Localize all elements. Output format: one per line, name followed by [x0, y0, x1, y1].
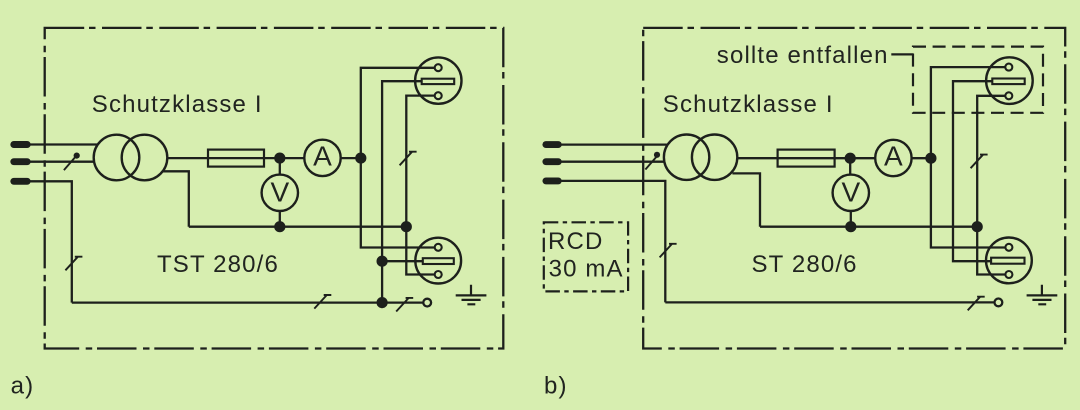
- wire L1 input to transformer (a): [26, 143, 98, 145]
- svg-text:A: A: [313, 140, 332, 171]
- ground symbol (b): [1027, 285, 1058, 305]
- wire ammeter to node L (a): [341, 157, 361, 159]
- slash mark on earth bus (b): [968, 297, 985, 311]
- node: junction dot at voltmeter tap (a): [274, 153, 285, 164]
- enclosure border (dash-dot) circuit b: [643, 28, 1065, 349]
- slash mark on PE drop wire (a): [65, 257, 82, 271]
- node: junction dot N bus to socket N riser (b): [972, 221, 983, 232]
- transformer T2 primary winding (b): [664, 135, 709, 180]
- socket X2 phase pin (a bottom): [435, 244, 442, 251]
- socket X2 neutral pin (a bottom): [435, 271, 442, 278]
- ground symbol (a): [456, 285, 487, 305]
- open terminal circle on earth bus (a): [423, 299, 431, 307]
- wire PE input down to earth bus (b): [557, 181, 665, 303]
- wire branch to lower socket earth bar (a): [382, 260, 423, 262]
- transformer T2 secondary winding (b): [692, 135, 737, 180]
- socket X1 body (a top): [415, 57, 461, 103]
- wire L2 input to transformer (a): [26, 161, 95, 163]
- svg-text:sollte entfallen: sollte entfallen: [717, 42, 889, 69]
- socket X4 neutral pin (b bottom): [1005, 271, 1012, 278]
- svg-text:V: V: [841, 176, 860, 207]
- socket X3 body (b top): [986, 57, 1033, 104]
- socket X4 earth bar (b bottom): [991, 258, 1024, 264]
- node: junction dot V meter on N bus (b): [845, 221, 856, 232]
- wire L riser to both socket phase pins (a): [361, 68, 435, 248]
- open terminal circle on earth bus (b): [995, 299, 1003, 307]
- voltmeter V2 (b): [833, 175, 869, 211]
- supply terminal L3/PE (a): [14, 178, 27, 185]
- ammeter A2 (b): [875, 140, 911, 176]
- svg-text:a): a): [11, 373, 35, 400]
- node: junction dot V meter on N bus (a): [274, 221, 285, 232]
- wire PE earth bus (b): [665, 301, 993, 303]
- enclosure border (dash-dot) circuit a: [45, 28, 504, 349]
- wire PE riser between socket earth bars only (b): [953, 81, 992, 261]
- slash mark on N riser (a): [400, 152, 417, 166]
- node: junction dot PE riser on earth bus (a): [377, 297, 388, 308]
- wire N riser to both socket neutral pins (b): [977, 96, 1006, 275]
- slash mark on N riser (b): [971, 155, 988, 169]
- supply terminal L2 (a): [14, 158, 27, 165]
- wire transformer bottom to N bus (a): [162, 171, 188, 226]
- svg-text:A: A: [884, 140, 903, 171]
- probe slash on L2 (b): [645, 156, 657, 169]
- supply terminal L1 (b): [546, 141, 558, 148]
- wire junction to voltmeter (a): [279, 158, 281, 175]
- wire L2 input to transformer (b): [557, 161, 665, 163]
- socket X2 earth bar (a bottom): [423, 258, 454, 264]
- socket X1 phase pin (a top): [435, 64, 442, 71]
- socket X1 earth bar (a top): [422, 79, 455, 84]
- socket X3 phase pin (b top): [1005, 64, 1012, 71]
- svg-text:TST 280/6: TST 280/6: [157, 251, 279, 278]
- wire N riser to both socket neutral pins (a): [406, 96, 435, 275]
- wire junction to voltmeter (b): [849, 158, 851, 175]
- probe slash on L2 (a): [64, 157, 76, 170]
- transformer T1 primary winding (a): [94, 135, 140, 181]
- svg-text:Schutzklasse I: Schutzklasse I: [663, 91, 834, 118]
- slash mark on earth bus left (a): [314, 295, 331, 309]
- socket X2 body (a bottom): [415, 238, 461, 284]
- leader line from label to dashed box: [891, 53, 913, 55]
- socket X4 body (b bottom): [986, 238, 1032, 284]
- wire voltmeter to N bus (a): [279, 211, 281, 227]
- svg-text:Schutzklasse I: Schutzklasse I: [92, 91, 263, 118]
- svg-text:b): b): [544, 373, 568, 400]
- RCD box (dash-dot): [544, 222, 628, 291]
- svg-text:RCD: RCD: [548, 228, 603, 255]
- wire PE riser to socket earth bars (a): [382, 81, 422, 302]
- wire N bus horizontal (a): [189, 226, 406, 228]
- wire transformer output to ammeter through fuse (b): [737, 157, 876, 159]
- socket X3 earth bar (b top): [992, 79, 1024, 85]
- node: junction dot L distribution (a): [355, 153, 366, 164]
- dashed highlight box around upper socket (b): [913, 47, 1043, 113]
- slash mark on PE drop wire (b): [660, 244, 677, 258]
- wire L1 input to transformer (b): [557, 143, 668, 145]
- socket X3 neutral pin (b top): [1005, 92, 1012, 99]
- supply terminal L2 (b): [546, 158, 558, 165]
- wire N bus horizontal (b): [760, 226, 977, 228]
- probe point dot on L2 (a): [74, 153, 80, 159]
- wire L riser to both socket phase pins (b): [931, 67, 1006, 247]
- ammeter A1 (a): [304, 140, 340, 176]
- wire PE input down to earth bus (a): [26, 181, 72, 302]
- node: junction dot N bus to socket N riser (a): [401, 221, 412, 232]
- svg-text:V: V: [270, 176, 289, 207]
- node: junction dot at voltmeter tap (b): [845, 153, 856, 164]
- wire PE earth bus (a): [72, 301, 423, 303]
- wire transformer output to ammeter through fuse (a): [167, 157, 305, 159]
- fuse F1 (a): [208, 150, 264, 167]
- supply terminal L3/PE (b): [546, 177, 558, 184]
- slash mark on earth bus right (a): [396, 298, 413, 312]
- node: junction dot earth bar branch (a): [377, 256, 388, 267]
- wire voltmeter to N bus (b): [850, 211, 852, 227]
- transformer T1 secondary winding (a): [122, 135, 168, 181]
- wire transformer bottom to N bus (b): [732, 173, 760, 226]
- svg-text:30 mA: 30 mA: [549, 256, 624, 283]
- socket X1 neutral pin (a top): [435, 92, 442, 99]
- svg-text:ST 280/6: ST 280/6: [752, 251, 858, 278]
- supply terminal L1 (a): [14, 141, 27, 148]
- node: junction dot L distribution (b): [925, 153, 936, 164]
- probe point dot on L2 (b): [654, 152, 660, 158]
- fuse F2 (b): [778, 150, 835, 167]
- voltmeter V1 (a): [262, 175, 298, 211]
- wire ammeter to node L (b): [912, 157, 931, 159]
- socket X4 phase pin (b bottom): [1005, 244, 1012, 251]
